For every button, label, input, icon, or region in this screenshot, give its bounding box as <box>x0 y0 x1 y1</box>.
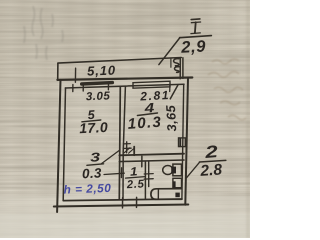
entrance door tick a <box>122 198 124 208</box>
balcony hatch squiggle 2 <box>174 67 179 73</box>
toilet bowl <box>163 166 173 175</box>
fraction bar room1 <box>126 177 146 179</box>
balcony dimension tick <box>74 68 76 82</box>
vent box room4 <box>179 138 186 147</box>
left wall outer <box>57 80 60 212</box>
right wall outer <box>185 78 188 205</box>
bathtub head line <box>157 189 159 199</box>
top wall outer line <box>57 78 192 80</box>
balcony door jamb tick <box>169 86 171 92</box>
bathtub outline <box>151 189 182 200</box>
right wall inner <box>182 84 184 199</box>
svg-text:10.3: 10.3 <box>127 114 163 133</box>
interior exposure lighten <box>58 78 188 205</box>
svg-text:2.8: 2.8 <box>199 161 223 180</box>
corridor/bath partition line 2 <box>148 161 150 186</box>
darker right edge of photo <box>246 0 250 238</box>
bottom wall inner <box>63 199 182 201</box>
balcony hatch squiggle 1 <box>174 59 179 66</box>
roman I serif top <box>191 21 200 24</box>
closet stub <box>133 147 135 156</box>
balcony right edge line 2 <box>182 58 184 79</box>
window room5 tick a <box>72 85 74 92</box>
bath door tick 2 <box>144 178 153 180</box>
leader line room2 <box>187 162 200 178</box>
wall room4/corridor line D <box>119 160 184 162</box>
dark filled details <box>171 138 181 197</box>
vent dark bar <box>179 138 181 146</box>
paper grain streaks <box>0 0 250 238</box>
room5 door leaf <box>104 173 124 174</box>
bottom wall outer <box>54 205 189 207</box>
room4 door leaf <box>126 142 128 153</box>
corridor/bath partition line 1 <box>144 161 146 199</box>
bath door tick 1 <box>144 173 153 175</box>
room4 door cross tick 2 <box>124 143 131 145</box>
fraction bar room4 <box>137 113 157 116</box>
svg-text:5,10: 5,10 <box>87 63 116 79</box>
svg-text:3,65: 3,65 <box>163 104 179 132</box>
blue height note h = 2,50 <box>63 181 111 197</box>
bottom paper wash <box>0 196 250 238</box>
heater dark bar <box>173 181 175 187</box>
svg-text:2,9: 2,9 <box>180 38 207 57</box>
svg-text:2: 2 <box>203 142 219 162</box>
room4 door cross tick <box>123 147 131 149</box>
balcony top rail <box>58 58 181 64</box>
leader line balcony <box>159 38 180 65</box>
svg-text:3: 3 <box>90 150 101 165</box>
toilet tank <box>173 164 182 176</box>
fraction bar balcony label <box>180 36 212 38</box>
svg-text:17.0: 17.0 <box>79 119 109 136</box>
svg-text:1: 1 <box>130 164 139 179</box>
roman I macron <box>191 18 200 21</box>
interior wall rooms5/4 line B <box>123 87 125 200</box>
svg-text:h = 2,50: h = 2,50 <box>63 181 111 197</box>
closet hatch diagonal <box>124 148 130 153</box>
top wall inner line <box>65 84 184 88</box>
window room5 tick c <box>107 83 109 90</box>
bathtub drain <box>175 193 179 198</box>
svg-text:3.05: 3.05 <box>86 90 111 103</box>
fraction bar room5 <box>82 120 101 122</box>
left wall inner <box>63 88 65 200</box>
roman I serif bottom <box>191 32 200 35</box>
svg-text:0.3: 0.3 <box>82 165 103 181</box>
tick at bath wall start <box>141 156 143 167</box>
balcony hatch box edge <box>170 58 172 67</box>
faint bleed-through handwriting right side <box>208 59 246 120</box>
balcony right edge line 1 <box>179 58 181 79</box>
svg-text:2.5: 2.5 <box>126 178 145 191</box>
closet hatch diagonal 2 <box>129 148 134 153</box>
leader line room3 <box>102 150 121 164</box>
room5 door tick <box>120 168 122 178</box>
roman I stem <box>194 22 197 33</box>
window room4 box <box>133 81 170 88</box>
entrance door tick b <box>136 197 138 207</box>
window room5 glazing band <box>82 83 113 84</box>
faint bleed-through handwriting top-left <box>24 6 63 60</box>
window room5 tick b <box>82 84 84 91</box>
interior wall rooms5/4 line A <box>119 87 120 200</box>
balcony left edge <box>57 63 59 79</box>
fraction bar room2 <box>199 160 225 162</box>
toilet seat dark blob <box>171 167 176 174</box>
wall room4/corridor line C <box>119 154 184 156</box>
fraction bar room3 <box>87 164 104 166</box>
balcony door leaf <box>170 85 178 99</box>
water heater box <box>173 178 182 187</box>
